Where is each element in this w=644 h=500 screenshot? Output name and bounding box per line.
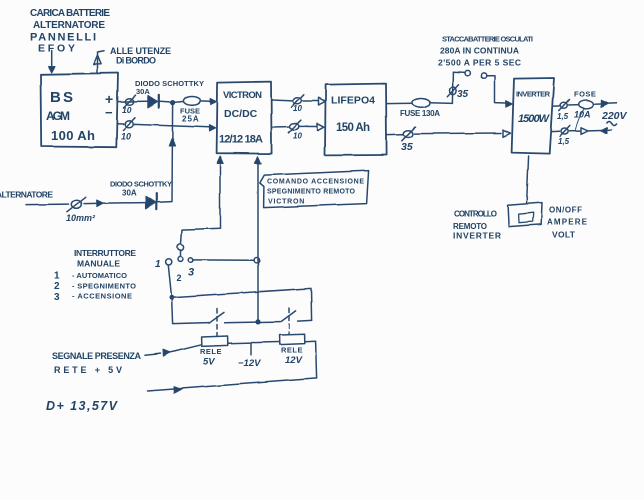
svg-text:LIFEPO4: LIFEPO4: [331, 95, 375, 107]
svg-text:5V: 5V: [203, 357, 215, 368]
label: controllo remoto inverter: [453, 210, 501, 241]
wire: switch position 3 to victron pin2 line: [193, 258, 259, 263]
svg-text:35: 35: [401, 141, 413, 153]
wire: segnale presenza rete +5V: [145, 345, 201, 356]
svg-text:FOSE: FOSE: [574, 90, 596, 99]
label: 1,5 top: [557, 112, 569, 121]
label: 35 riser: [457, 89, 469, 100]
wire: riser to battery switch, mark 35: [447, 72, 458, 103]
relay contact K2 (switch + dashed link): [281, 308, 296, 334]
svg-text:1,5: 1,5: [557, 112, 569, 121]
label: 10 (wire gauge top): [122, 105, 132, 115]
wire: Victron remote pin 2: [255, 156, 261, 319]
svg-text:- ACCENSIONE: - ACCENSIONE: [72, 292, 132, 301]
node J1 junction: [160, 100, 176, 105]
cable size mark 10mm2 (alternator): [67, 197, 86, 212]
wire: inverter AC out line 1: [553, 100, 578, 111]
svg-text:25A: 25A: [182, 115, 200, 124]
wire: alle utenze di bordo arrow (up): [93, 51, 104, 73]
svg-text:INVERTER: INVERTER: [516, 90, 551, 99]
wire: rail B middle: [225, 322, 280, 323]
wire: LiFePO4 - to inverter, mark 35: [387, 127, 511, 141]
svg-text:10: 10: [293, 104, 302, 113]
label: 10 out bottom: [293, 132, 302, 141]
svg-text:INTERRUTTORE: INTERRUTTORE: [74, 248, 136, 258]
fuse F3 10A: [578, 100, 616, 108]
label: fuse 25A: [180, 107, 200, 124]
label: alle utenze di bordo: [110, 46, 171, 66]
svg-text:30A: 30A: [122, 189, 137, 198]
relay contact K1 (switch + dashed link): [209, 309, 224, 337]
label: BS AGM 100Ah: [46, 89, 113, 143]
wire: inverter remote pin down: [527, 156, 529, 204]
svg-text:VICTRON: VICTRON: [223, 90, 262, 101]
svg-text:30A: 30A: [136, 87, 150, 96]
svg-text:DIODO SCHOTTKY: DIODO SCHOTTKY: [110, 180, 172, 189]
wire: Victron out + to LiFePO4: [272, 98, 326, 105]
svg-text:AMPERE: AMPERE: [547, 218, 588, 227]
cable size mark 10 (out bottom): [289, 120, 301, 133]
svg-text:1: 1: [54, 271, 60, 282]
svg-text:2: 2: [177, 273, 182, 283]
svg-text:ALTERNATORE: ALTERNATORE: [33, 20, 105, 31]
svg-text:2'500 A PER 5 SEC: 2'500 A PER 5 SEC: [438, 58, 521, 68]
label: charging sources list: [30, 8, 110, 55]
svg-text:12/12 18A: 12/12 18A: [219, 134, 263, 146]
svg-text:RELE: RELE: [200, 347, 222, 356]
label: fuse 130A: [400, 109, 440, 118]
node J2 junction: [169, 295, 174, 300]
switch S2 staccabatterie Osculati: [453, 71, 512, 107]
svg-text:1500W: 1500W: [518, 113, 551, 125]
svg-text:150 Ah: 150 Ah: [336, 122, 370, 134]
svg-text:CARICA BATTERIE: CARICA BATTERIE: [30, 8, 110, 19]
svg-text:280A IN CONTINUA: 280A IN CONTINUA: [440, 46, 519, 56]
label: fose (fuse): [574, 90, 596, 99]
remote control panel box: [508, 203, 542, 227]
svg-text:Di BORDO: Di BORDO: [116, 56, 156, 66]
svg-text:−12V: −12V: [238, 358, 261, 369]
diode D1 schottky 30A: [148, 95, 159, 108]
label: LiFePO4 150 Ah: [331, 95, 375, 135]
wire: Victron remote pin 1: [181, 156, 223, 243]
svg-text:220V: 220V: [601, 110, 628, 122]
svg-text:10: 10: [122, 105, 132, 115]
svg-text:VICTRON: VICTRON: [268, 199, 305, 206]
label: rele 5V: [200, 347, 222, 368]
svg-text:−: −: [105, 105, 113, 120]
cable size mark 10 (out top): [291, 95, 303, 108]
cable size mark 10mm2 (second): [123, 118, 135, 130]
svg-text:- AUTOMATICO: - AUTOMATICO: [72, 271, 127, 280]
svg-text:COMANDO ACCENSIONE: COMANDO ACCENSIONE: [267, 179, 364, 186]
svg-text:INVERTER: INVERTER: [453, 231, 501, 241]
converter box U1 Victron DC/DC 12/12 18A: [217, 82, 272, 154]
fuse F2 130A: [387, 98, 453, 107]
wire: rail C right down to rail D: [305, 341, 317, 378]
node J3 junction: [255, 319, 260, 324]
svg-text:VOLT: VOLT: [552, 230, 576, 240]
label: Victron DC/DC 12/12 18A: [219, 90, 263, 146]
svg-text:STACCABATTERIE OSCULATI: STACCABATTERIE OSCULATI: [442, 35, 533, 44]
svg-text:ALTERNATORE: ALTERNATORE: [0, 190, 53, 200]
wire: BS - output: [117, 124, 216, 131]
inverter box U2 1500W: [512, 78, 554, 154]
svg-text:10mm²: 10mm²: [66, 213, 96, 223]
label: 10 (wire gauge bottom): [121, 132, 131, 142]
label: on/off ampere volt: [547, 206, 588, 240]
note box: comando accensione spegnimento remoto victron: [260, 171, 369, 208]
wire: inverter AC out line 2: [551, 125, 611, 136]
battery box BS AGM 100Ah: [41, 73, 119, 147]
wire: rail C between relays with -12V tap: [228, 342, 280, 354]
svg-text:- SPEGNIMENTO: - SPEGNIMENTO: [72, 282, 136, 291]
wire: rail A upper: [172, 288, 312, 320]
svg-text:DC/DC: DC/DC: [224, 108, 258, 120]
wire: Victron out - to LiFePO4: [272, 123, 324, 130]
relay coil K2 RELE 12V: [280, 334, 305, 344]
svg-text:RELE: RELE: [281, 346, 303, 355]
label: 10mm2: [66, 213, 96, 223]
label: staccabatterie osculati specs: [438, 35, 533, 68]
svg-text:1,5: 1,5: [558, 137, 570, 146]
svg-text:2: 2: [54, 281, 60, 292]
wire: vertical junction to alternator diode, arrow up: [169, 105, 175, 202]
svg-text:D+ 13,57V: D+ 13,57V: [46, 399, 119, 413]
wire: rail B right: [298, 319, 312, 322]
svg-text:B S: B S: [50, 89, 73, 106]
svg-text:AGM: AGM: [46, 109, 70, 123]
label: diodo schottky 30A (alternator): [110, 180, 172, 198]
cable size mark 10mm2 (top): [124, 95, 136, 107]
svg-text:SEGNALE PRESENZA: SEGNALE PRESENZA: [52, 351, 142, 361]
svg-text:3: 3: [54, 292, 60, 303]
svg-text:35: 35: [457, 89, 469, 100]
fuse F1 25A: [175, 97, 217, 106]
svg-text:FUSE 130A: FUSE 130A: [400, 109, 440, 118]
label: 10A: [574, 110, 591, 120]
label: 220V AC: [601, 110, 628, 126]
svg-text:EFOY: EFOY: [38, 43, 75, 55]
label: inverter 1500W: [516, 90, 551, 126]
wire: BS + output: [117, 100, 147, 102]
svg-text:ON/OFF: ON/OFF: [549, 206, 582, 215]
label: 1,5 bottom: [558, 137, 570, 146]
svg-text:ALLE UTENZE: ALLE UTENZE: [110, 46, 171, 56]
svg-text:CONTROLLO: CONTROLLO: [454, 210, 497, 219]
svg-text:3: 3: [188, 267, 194, 279]
svg-text:MANUALE: MANUALE: [77, 259, 120, 269]
wire: switch position 1 down to node: [168, 265, 171, 294]
annotation stroke from 10A to line 2: [576, 110, 584, 130]
label: interruttore manuale legend: [54, 248, 136, 303]
label: rele 12V: [281, 346, 303, 367]
label: comando accensione spegnimento remoto victron: [267, 179, 364, 206]
wire: sources arrow into BS box: [49, 51, 56, 73]
label: switch position numbers: [155, 259, 194, 283]
label: alternatore: [0, 190, 53, 200]
svg-text:1: 1: [155, 259, 161, 270]
label: 35 lower: [401, 141, 413, 153]
svg-text:10A: 10A: [574, 110, 591, 120]
label: 10 out top: [293, 104, 302, 113]
label: -12V: [238, 358, 261, 369]
diode D2 schottky 30A: [146, 194, 171, 210]
label: segnale presenza rete +5V: [52, 351, 142, 375]
battery box B2 LiFePO4 150Ah: [325, 84, 387, 156]
label: diodo schottky 30A (top): [135, 79, 204, 96]
svg-text:10: 10: [293, 132, 302, 141]
switch S1 interruttore manuale (common + positions 1 2 3): [166, 244, 194, 265]
wire: alternator feed: [26, 200, 145, 207]
label: D+ 13,57V: [46, 399, 119, 413]
svg-text:100 Ah: 100 Ah: [51, 128, 95, 143]
wire: rail D (D+ 13,57V): [147, 378, 317, 393]
svg-text:10: 10: [121, 132, 131, 142]
svg-text:SPEGNIMENTO REMOTO: SPEGNIMENTO REMOTO: [267, 189, 356, 196]
svg-text:12V: 12V: [285, 355, 303, 366]
wire: rail B left: [172, 297, 209, 323]
relay coil K1 RELE 5V: [202, 336, 228, 346]
